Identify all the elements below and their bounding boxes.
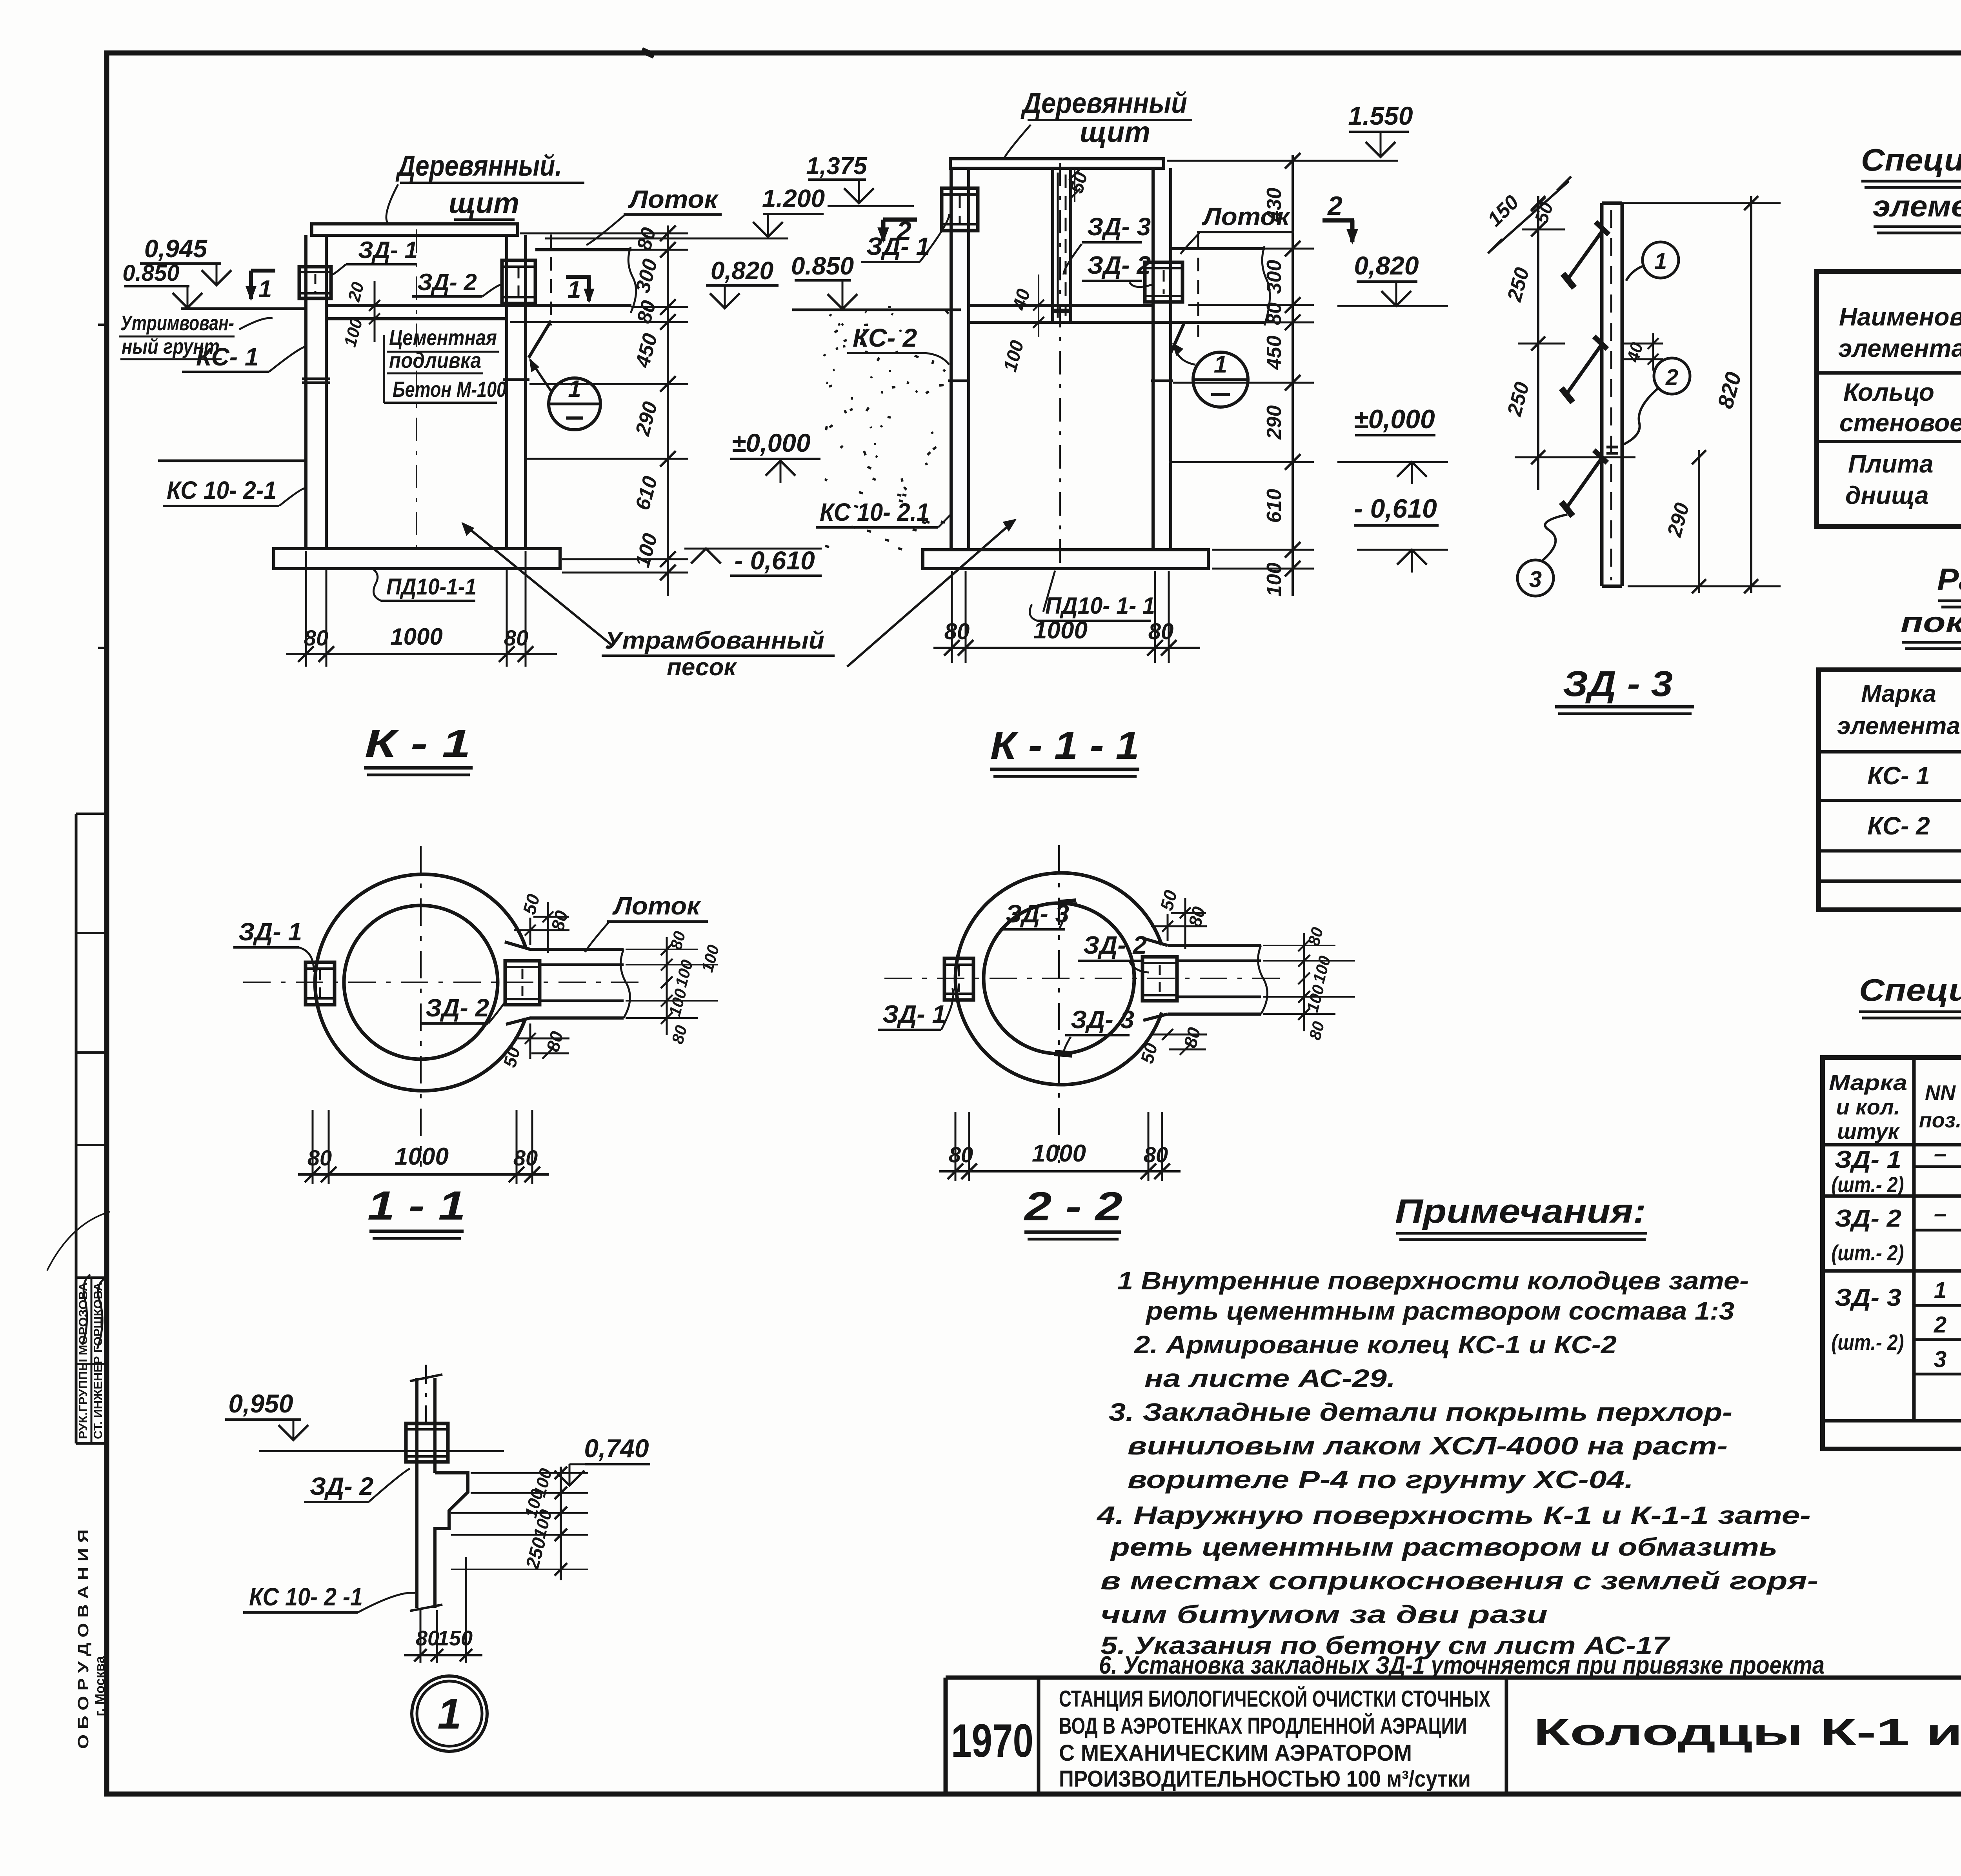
1-1 bell transition to tray [505, 942, 530, 949]
svg-text:430: 430 [1263, 188, 1286, 222]
1-1 outer ring [315, 874, 526, 1091]
K-1 left wall [304, 235, 307, 549]
svg-text:ЗД- 1: ЗД- 1 [866, 232, 930, 260]
svg-text:NN: NN [1925, 1081, 1956, 1105]
sand arrow to K-1-1 [847, 520, 1015, 667]
svg-text:- 0,610: - 0,610 [734, 546, 815, 575]
svg-text:±0,000: ±0,000 [1353, 404, 1435, 434]
svg-text:3. Закладные детали покрыть: 3. Закладные детали покрыть перхлор- [1109, 1398, 1732, 1426]
K-1 sleeve ZD-2 (right wall) [502, 260, 535, 304]
svg-text:Марка: Марка [1829, 1070, 1907, 1095]
ZD-3 pos circle 3 [1517, 560, 1554, 596]
1-1 right dim chain 80/100/100/80 [666, 937, 668, 1035]
svg-text:Плита: Плита [1848, 450, 1933, 478]
K-1 bottom slab PD10-1-1 [274, 549, 560, 569]
svg-text:ЗД- 2: ЗД- 2 [310, 1472, 373, 1500]
K-1 bottom dims 80/1000/80 [305, 551, 307, 667]
ZD-3 pos circle 1 [1643, 242, 1679, 278]
1-1 bottom dims 50/80 [529, 1023, 531, 1059]
table 2 grid [1819, 670, 1961, 910]
svg-text:Утрамбованный: Утрамбованный [605, 627, 824, 654]
svg-text:ЗД- 3: ЗД- 3 [1006, 900, 1069, 928]
svg-text:Бетон М-100: Бетон М-100 [393, 377, 506, 402]
svg-text:0,820: 0,820 [711, 256, 773, 285]
ZD-3 right dim 820 [1622, 202, 1781, 204]
svg-text:–: – [1934, 1141, 1946, 1167]
svg-text:1: 1 [258, 276, 272, 303]
svg-text:1.200: 1.200 [762, 184, 825, 213]
svg-text:80: 80 [1263, 302, 1286, 325]
svg-text:щит: щит [449, 187, 519, 219]
1-1 sleeve ZD-1 left [306, 962, 335, 1005]
ZD-3 pos circle 2 [1654, 358, 1690, 394]
svg-text:1: 1 [1654, 249, 1667, 274]
svg-text:КС- 1: КС- 1 [196, 343, 258, 371]
K-1-1 wall slope below tray [1171, 322, 1184, 353]
svg-text:3: 3 [1529, 567, 1542, 592]
K-1-1 sleeve ZD-2 (mid) [1145, 262, 1182, 302]
svg-text:ВОД В АЭРОТЕНКАХ ПРОДЛЕННОЙ АЭ: ВОД В АЭРОТЕНКАХ ПРОДЛЕННОЙ АЭРАЦИИ [1059, 1713, 1467, 1739]
svg-text:1970: 1970 [951, 1714, 1033, 1767]
2-2 sleeve ZD-2 right [1142, 957, 1177, 1001]
svg-text:ЗД- 3: ЗД- 3 [1087, 213, 1151, 241]
ZD-3 top slanted dim 150/50 [1490, 181, 1569, 251]
svg-text:Кольцо: Кольцо [1843, 378, 1934, 406]
svg-text:–: – [1934, 1201, 1946, 1227]
svg-text:0,950: 0,950 [228, 1389, 293, 1418]
svg-text:КС- 1: КС- 1 [1867, 762, 1930, 790]
K-1 ring joint marks [302, 378, 330, 380]
ZD-3 right dim 290 [1698, 450, 1700, 593]
svg-text:КС- 2: КС- 2 [1867, 812, 1930, 840]
svg-text:КС- 2: КС- 2 [853, 323, 917, 352]
svg-text:Утримвован-: Утримвован- [120, 311, 234, 335]
K-1-1 sleeve ZD-1 (left wall) [942, 188, 978, 231]
K-1 right wall [505, 235, 508, 549]
svg-text:80: 80 [944, 619, 970, 644]
ZD-3 small dim 40 [1622, 343, 1663, 345]
svg-text:показанные на данном листе: показанные на данном листе [1901, 607, 1961, 638]
detail 1 right dim chain [560, 1467, 562, 1580]
svg-text:ЗД- 1: ЗД- 1 [882, 1000, 946, 1028]
K-1 tray end break [628, 247, 636, 313]
svg-text:штук: штук [1837, 1119, 1900, 1143]
2-2 bottom dims 50/80 [1162, 1029, 1173, 1040]
svg-text:элементов, замаркированных на: элементов, замаркированных на данном [1873, 190, 1961, 223]
svg-text:80: 80 [513, 1145, 538, 1170]
svg-text:2: 2 [1934, 1312, 1946, 1338]
svg-text:СТАНЦИЯ БИОЛОГИЧЕСКОЙ ОЧИСТКИ: СТАНЦИЯ БИОЛОГИЧЕСКОЙ ОЧИСТКИ СТОЧНЫХ [1059, 1686, 1490, 1712]
svg-text:0,945: 0,945 [144, 234, 208, 263]
svg-text:1000: 1000 [390, 624, 442, 650]
svg-text:Колодцы К-1 и К-1-1: Колодцы К-1 и К-1-1 [1534, 1711, 1961, 1753]
svg-text:ЗД- 3: ЗД- 3 [1071, 1005, 1134, 1034]
K-1-1 top board [950, 159, 1164, 168]
svg-text:4. Наружную поверхность К-1: 4. Наружную поверхность К-1 и К-1-1 зате… [1096, 1501, 1811, 1529]
svg-text:ЗД - 3: ЗД - 3 [1563, 664, 1673, 704]
svg-text:С МЕХАНИЧЕСКИМ АЭРАТОРОМ: С МЕХАНИЧЕСКИМ АЭРАТОРОМ [1059, 1740, 1412, 1766]
svg-text:Спецификация стали на одну: Спецификация стали на одну штуку, [1859, 973, 1961, 1007]
svg-text:ПД10-1-1: ПД10-1-1 [386, 574, 477, 600]
svg-text:1: 1 [568, 276, 581, 304]
svg-text:на листе АС-29.: на листе АС-29. [1144, 1364, 1395, 1392]
svg-text:100: 100 [1263, 563, 1286, 597]
section mark 1 (right, in tray) [566, 275, 591, 279]
detail 1 break marks [410, 1374, 442, 1381]
svg-text:610: 610 [1263, 489, 1286, 523]
svg-text:0.850: 0.850 [791, 252, 854, 280]
svg-text:КС 10- 2.1: КС 10- 2.1 [820, 498, 930, 526]
concrete stipple K-1-1 [863, 330, 866, 331]
svg-text:1 - 1: 1 - 1 [367, 1183, 466, 1229]
ZD-3 hook 2 [1594, 336, 1607, 349]
svg-text:г. Москва: г. Москва [93, 1656, 107, 1716]
svg-text:КС 10- 2 -1: КС 10- 2 -1 [249, 1583, 363, 1611]
svg-text:виниловым лаком ХСЛ-4000 на: виниловым лаком ХСЛ-4000 на раст- [1128, 1432, 1728, 1460]
2-2 right dim chain [1303, 933, 1305, 1031]
left stamp column [75, 814, 78, 1443]
svg-text:РУК.ГРУППЫ МОРОЗОВА: РУК.ГРУППЫ МОРОЗОВА [77, 1282, 90, 1439]
svg-text:ПД10- 1- 1: ПД10- 1- 1 [1045, 593, 1155, 619]
svg-text:0,740: 0,740 [584, 1434, 649, 1463]
K-1-1 chamber floor slab [969, 304, 1153, 307]
K-1 sleeve ZD-1 (left wall) [299, 267, 331, 298]
ZD-3 hook 1 [1595, 222, 1609, 234]
svg-text:80: 80 [1144, 1142, 1168, 1167]
svg-text:3: 3 [1934, 1347, 1946, 1372]
1-1 bottom dim 80/1000/80 [312, 1110, 314, 1184]
svg-text:290: 290 [1263, 405, 1286, 440]
detail 1 big circle 1 [412, 1676, 487, 1751]
section mark 2 (right) [1322, 218, 1354, 223]
svg-text:1,375: 1,375 [806, 153, 868, 180]
K-1 right dimension chain [667, 225, 669, 596]
svg-text:СТ. ИНЖЕНЕР ГОРШКОВА: СТ. ИНЖЕНЕР ГОРШКОВА [92, 1282, 105, 1439]
svg-text:1000: 1000 [395, 1143, 449, 1170]
svg-text:±0,000: ±0,000 [731, 428, 811, 457]
sand arrow to K-1 [463, 524, 612, 645]
K-1-1 right wall [1151, 168, 1155, 550]
svg-text:днища: днища [1845, 481, 1929, 509]
svg-text:Наименов: Наименов [1839, 303, 1961, 331]
K-1-1 anchor strip ZD-3 [1051, 169, 1054, 321]
2-2 inner ring [984, 903, 1134, 1054]
K-1-1 right dimension chain [1292, 155, 1294, 596]
svg-text:Цементная: Цементная [389, 325, 497, 350]
svg-text:поз.: поз. [1919, 1109, 1961, 1132]
K-1-1 center line [1059, 163, 1061, 573]
svg-text:Спецификация сборных железоб: Спецификация сборных железобетонных [1861, 142, 1961, 177]
svg-text:реть цементным раствором со: реть цементным раствором состава 1:3 [1145, 1297, 1734, 1325]
svg-text:чим битумом за дви рази: чим битумом за дви рази [1101, 1600, 1548, 1629]
svg-text:Расход материалов на элемент: Расход материалов на элементы [1937, 562, 1961, 597]
svg-text:и кол.: и кол. [1836, 1094, 1900, 1119]
K-1 lower ground line 0.000 [158, 460, 306, 462]
svg-text:Лоток: Лоток [628, 185, 719, 213]
2-2 top dims 50/80 [1167, 914, 1169, 941]
svg-text:ЗД- 1: ЗД- 1 [358, 237, 418, 263]
svg-text:ЗД- 2: ЗД- 2 [426, 994, 489, 1022]
detail 1 wall profile [415, 1378, 418, 1608]
svg-text:80: 80 [304, 625, 328, 650]
svg-text:ЗД- 3: ЗД- 3 [1835, 1284, 1901, 1311]
K-1-1 bottom dims [951, 571, 953, 663]
svg-text:ЗД- 2: ЗД- 2 [1835, 1205, 1901, 1232]
svg-text:песок: песок [667, 654, 737, 681]
svg-text:80: 80 [307, 1145, 332, 1170]
svg-text:ЗД- 2: ЗД- 2 [417, 269, 477, 295]
2-2 outer ring [955, 873, 1162, 1085]
2-2 bottom dim 80/1000/80 [955, 1112, 957, 1181]
svg-text:0.850: 0.850 [122, 260, 179, 286]
detail circle 1 (K-1-1) [1193, 352, 1248, 407]
svg-text:подливка: подливка [389, 348, 481, 373]
svg-text:0,820: 0,820 [1354, 251, 1419, 280]
svg-text:(шт.- 2): (шт.- 2) [1832, 1240, 1904, 1265]
K-1-1 ring joint marks [948, 380, 970, 382]
svg-text:6. Установка закладных ЗД-1: 6. Установка закладных ЗД-1 уточняется п… [1099, 1651, 1825, 1679]
K-1 chamber floor slab [326, 304, 631, 307]
K-1-1 bottom slab [923, 550, 1208, 569]
K-1-1 left wall [950, 168, 953, 550]
svg-text:80: 80 [1148, 619, 1174, 644]
svg-text:Примечания:: Примечания: [1395, 1192, 1646, 1230]
svg-text:1: 1 [1214, 351, 1227, 378]
1-1 top dims 50/80 [529, 918, 531, 945]
section mark 1 (left) [251, 269, 275, 273]
K-1 top board [312, 224, 518, 235]
K-1 upper ground line 0.850 [181, 307, 306, 310]
svg-text:щит: щит [1080, 116, 1150, 148]
svg-text:Деревянный.: Деревянный. [395, 149, 562, 182]
svg-text:элемента: элемента [1837, 713, 1960, 740]
svg-text:300: 300 [1263, 260, 1286, 294]
2-2 tray walls [1168, 944, 1261, 947]
detail 1 bottom dims 80/150 [420, 1610, 422, 1663]
ZD-3 detail plate [1600, 203, 1604, 586]
svg-text:(шт.- 2): (шт.- 2) [1832, 1172, 1904, 1197]
svg-text:К - 1: К - 1 [365, 722, 471, 765]
svg-text:О Б О Р У Д О В А Н И Я: О Б О Р У Д О В А Н И Я [75, 1529, 92, 1749]
K-1 wall slope below tray [529, 321, 551, 358]
svg-text:ЗД- 2: ЗД- 2 [1083, 931, 1147, 959]
svg-text:1 Внутренние поверхности кол: 1 Внутренние поверхности колодцев зате- [1117, 1267, 1749, 1295]
svg-text:80: 80 [504, 625, 528, 650]
svg-text:1.550: 1.550 [1348, 101, 1413, 130]
ZD-3 left dim chain 50/250/250 [1537, 196, 1539, 490]
detail circle 1 [549, 378, 600, 430]
svg-text:1000: 1000 [1032, 1140, 1086, 1167]
K-1-1 tray channel [1172, 247, 1265, 250]
svg-text:2: 2 [1665, 365, 1678, 390]
svg-text:2 - 2: 2 - 2 [1024, 1184, 1122, 1229]
1-1 tray walls [530, 948, 624, 951]
ZD-3 hook 3 [1594, 450, 1607, 463]
1-1 inner ring [344, 905, 498, 1059]
K-1 tray (lotok) channel [535, 248, 631, 251]
table 3 grid [1823, 1058, 1961, 1449]
1-1 center lines [420, 846, 422, 1167]
svg-text:1: 1 [437, 1690, 461, 1738]
svg-text:(шт.- 2): (шт.- 2) [1832, 1330, 1904, 1354]
svg-text:ЗД- 1: ЗД- 1 [238, 918, 302, 946]
2-2 center lines [1058, 845, 1060, 1163]
svg-text:80: 80 [949, 1142, 973, 1167]
detail 1 pipe center [425, 1365, 427, 1431]
svg-text:- 0,610: - 0,610 [1354, 494, 1437, 524]
svg-text:Деревянный: Деревянный [1021, 87, 1187, 119]
svg-text:К - 1 - 1: К - 1 - 1 [990, 723, 1139, 767]
ZD-3 plate mid marks [1606, 446, 1618, 449]
2-2 anchor marks ZD-3 top/bottom [1058, 900, 1076, 902]
svg-text:ЗД- 2: ЗД- 2 [1087, 251, 1151, 279]
svg-text:КС 10- 2-1: КС 10- 2-1 [167, 476, 277, 504]
svg-text:элемента: элемента [1838, 334, 1961, 362]
section mark 2 (left) [883, 218, 917, 222]
svg-text:2. Армирование колец КС-1 и: 2. Армирование колец КС-1 и КС-2 [1134, 1331, 1617, 1359]
K-1 center line [416, 229, 417, 551]
svg-text:в местах соприкосновения с: в местах соприкосновения с землей горя- [1101, 1567, 1818, 1595]
svg-text:2: 2 [1327, 191, 1343, 221]
title block [946, 1676, 1961, 1680]
svg-text:ПРОИЗВОДИТЕЛЬНОСТЬЮ 100 м³/сут: ПРОИЗВОДИТЕЛЬНОСТЬЮ 100 м³/сутки [1059, 1766, 1471, 1792]
K-1-1 tray end break [1262, 246, 1270, 325]
svg-text:Марка: Марка [1861, 680, 1936, 707]
svg-text:реть цементным раствором и: реть цементным раствором и обмазить [1110, 1533, 1777, 1561]
svg-text:стеновое: стеновое [1839, 409, 1961, 437]
svg-text:80: 80 [416, 1627, 439, 1650]
svg-text:ЗД- 1: ЗД- 1 [1835, 1146, 1901, 1173]
svg-text:450: 450 [1263, 336, 1286, 370]
2-2 sleeve ZD-1 left [944, 958, 973, 1000]
detail 1 sleeve ZD-2 [406, 1423, 448, 1462]
svg-text:Лоток: Лоток [612, 892, 702, 920]
svg-text:1: 1 [568, 376, 581, 402]
table 1 grid [1817, 271, 1961, 527]
2-2 bell transition [1142, 938, 1168, 945]
svg-text:150: 150 [437, 1627, 473, 1650]
svg-text:ворителе Р-4 по грунту ХС: ворителе Р-4 по грунту ХС-04. [1128, 1465, 1634, 1494]
1-1 sleeve ZD-2 right [505, 961, 540, 1005]
svg-text:1: 1 [1934, 1278, 1946, 1303]
